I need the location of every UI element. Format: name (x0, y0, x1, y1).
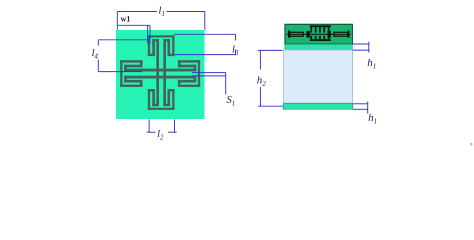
svg-text:l1: l1 (159, 6, 165, 19)
stray speck bottom-right (470, 143, 472, 146)
dimension h2 lines (258, 49, 283, 51)
substrate square (left unit cell) (116, 30, 205, 119)
svg-text:S1: S1 (226, 95, 235, 108)
meander arm left (120, 60, 122, 87)
dimension S1 lines (192, 72, 226, 74)
dimension l2 lines (148, 119, 150, 132)
dimension l3 lines (174, 33, 235, 35)
svg-text:w1: w1 (121, 15, 131, 24)
svg-text:l4: l4 (92, 48, 99, 61)
substrate / spacer (h2) (284, 50, 353, 103)
dimension h1 top lines (353, 43, 370, 45)
dimension l4 lines (98, 39, 149, 41)
svg-text:h1: h1 (368, 112, 377, 126)
dimension h1 bottom lines (353, 103, 368, 105)
dimension w1 pointer (118, 24, 150, 26)
dimension l1 lines (117, 11, 157, 13)
svg-text:l3: l3 (232, 45, 239, 58)
bottom board edge (thickness h1) (283, 104, 353, 110)
svg-text:h2: h2 (257, 75, 267, 89)
meander arm bottom (148, 108, 175, 110)
svg-text:l2: l2 (157, 129, 164, 142)
printed cross pattern on top board (perspective) (287, 34, 351, 35)
meander arm right (198, 60, 200, 87)
meander arm top (148, 35, 175, 37)
top board front edge (thickness h1) (285, 44, 353, 50)
top FSS board (perspective top surface) (285, 24, 353, 44)
svg-text:h1: h1 (367, 57, 376, 71)
